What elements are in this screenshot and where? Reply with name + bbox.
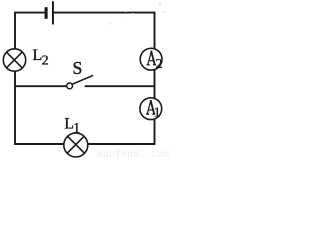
svg-text:1: 1 [73,121,80,137]
wire middle branch right [85,85,155,87]
svg-text:2: 2 [42,54,49,69]
battery B1 [45,1,54,24]
watermark manfen5.com [97,150,169,161]
svg-text:S: S [72,58,82,78]
wire bottom [15,143,156,145]
wire middle branch left [15,85,67,87]
lamp L1 [64,133,88,157]
switch S [67,75,93,88]
wire battery to top-right corner [53,12,155,14]
ammeter A1 [140,98,162,121]
wire top-left to battery [15,12,46,14]
svg-text:1: 1 [154,105,161,120]
svg-text:2: 2 [156,57,163,72]
lamp L2 [3,49,25,71]
wire left side [14,12,16,145]
label L1 [64,116,80,137]
ammeter A2 [140,48,162,72]
wire right side [154,12,156,145]
label L2 [33,47,49,69]
